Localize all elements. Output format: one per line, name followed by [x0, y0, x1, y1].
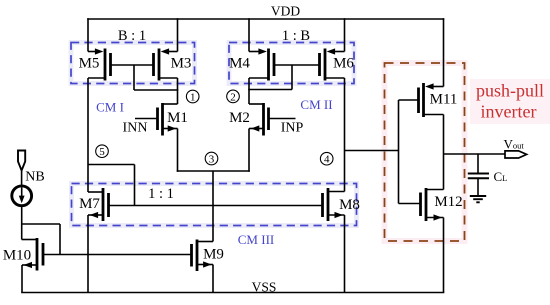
wire: bias node to M10/M9 gate line — [22, 223, 60, 225]
wire: node 4 to push-pull gates — [345, 150, 399, 152]
svg-text:M1: M1 — [167, 110, 188, 126]
svg-text:push-pull: push-pull — [476, 81, 544, 101]
svg-text:M10: M10 — [3, 248, 31, 264]
wire: VDD to M3 source — [177, 18, 179, 51]
svg-text:2: 2 — [230, 91, 236, 103]
wire: M11 drain to output node to M12 drain — [443, 115, 445, 190]
wire: M9 source to VSS — [212, 265, 214, 293]
svg-text:4: 4 — [324, 154, 330, 166]
wire: gate tie down (diode connection M4) — [291, 65, 293, 90]
svg-text:5: 5 — [99, 146, 105, 158]
output terminal Vout — [505, 151, 527, 158]
wire: M10 source to VSS — [21, 265, 23, 293]
wire: M5 drain down to node 5 and M7 drain — [87, 78, 89, 192]
svg-text:1 : B: 1 : B — [282, 28, 310, 44]
wire: M6 drain to node 4 and M8 drain — [344, 78, 346, 192]
svg-text:M2: M2 — [229, 110, 250, 126]
transistor M11 — [399, 83, 444, 117]
current mirror CM III dashed box — [72, 184, 357, 226]
transistor M2 — [249, 103, 296, 136]
wire: current source to M10 drain node — [21, 205, 23, 239]
capacitor CL — [468, 154, 489, 196]
wire: node 5 to M7/M8 gate line — [88, 164, 135, 166]
current mirror CM II dashed box — [229, 43, 354, 84]
svg-text:1: 1 — [190, 91, 196, 103]
wire: gate tie down (diode connection M3) — [133, 65, 135, 90]
svg-text:CM I: CM I — [96, 100, 124, 115]
svg-text:inverter: inverter — [481, 102, 537, 122]
transistor M10 — [22, 238, 43, 271]
input terminal NB — [18, 151, 25, 171]
current source IB — [12, 186, 32, 206]
wire: M8 source to VSS — [344, 215, 346, 293]
wire: node 3 down to M9 drain — [212, 171, 214, 242]
svg-text:M7: M7 — [79, 196, 100, 212]
transistor M3 — [154, 48, 178, 80]
transistor M9 — [192, 240, 214, 272]
svg-text:3: 3 — [209, 153, 215, 165]
transistor M7 — [88, 188, 109, 221]
svg-text:VSS: VSS — [252, 280, 277, 295]
node 4 — [320, 152, 333, 165]
wire: M4 gate to M6 gate — [274, 64, 320, 66]
wire: M1 source down to node 3 — [177, 129, 179, 172]
svg-text:VDD: VDD — [271, 4, 300, 19]
wire: M11/M12 gate tie — [398, 100, 400, 204]
wire: M7 gate to M8 gate — [109, 205, 323, 207]
wire: M4 drain to node 2 / M2 drain — [248, 78, 250, 104]
node 5 — [96, 145, 109, 158]
transistor M4 — [249, 48, 274, 80]
svg-text:1 : 1: 1 : 1 — [148, 186, 174, 202]
transistor M8 — [323, 188, 345, 221]
transistor M1 — [135, 103, 178, 136]
svg-text:B : 1: B : 1 — [118, 28, 146, 44]
wire: node 3 horizontal (M1/M2 sources) — [177, 170, 250, 172]
node 3 — [205, 152, 218, 165]
svg-text:M5: M5 — [79, 56, 100, 72]
wire: M2 source down to node 3 — [248, 129, 250, 172]
wire: VDD to M4 source — [248, 18, 250, 51]
svg-text:CM III: CM III — [238, 232, 274, 247]
wire: VDD to M5 source — [87, 18, 89, 51]
svg-text:M9: M9 — [203, 247, 224, 263]
svg-text:INP: INP — [281, 121, 304, 136]
transistor M6 — [320, 48, 345, 80]
wire: output node to Vout — [444, 153, 506, 155]
current mirror CM I dashed box — [71, 43, 195, 84]
svg-text:NB: NB — [25, 170, 44, 185]
transistor M12 — [399, 188, 444, 221]
svg-text:M4: M4 — [229, 56, 250, 72]
wire: NB terminal to current source — [21, 171, 23, 187]
svg-text:M11: M11 — [430, 92, 458, 108]
svg-text:CM II: CM II — [300, 97, 332, 112]
svg-text:M6: M6 — [333, 56, 354, 72]
transistor M5 — [88, 48, 111, 80]
ground — [470, 196, 486, 202]
svg-text:INN: INN — [123, 121, 148, 136]
VSS power rail — [21, 292, 444, 294]
push-pull inverter dashed box — [385, 63, 465, 241]
svg-text:M12: M12 — [434, 194, 462, 210]
wire: M7 source down to VSS — [87, 215, 89, 293]
wire: M3 drain to node 1 / M1 drain — [177, 78, 179, 104]
wire: VDD to M6 source — [344, 18, 346, 51]
VDD power rail — [87, 18, 444, 20]
node 2 — [227, 90, 240, 103]
wire: M10 gate to M9 gate — [43, 254, 192, 256]
wire: M12 source to VSS — [443, 218, 445, 293]
node 1 — [186, 90, 199, 103]
wire: M5 gate to M3 gate — [111, 64, 154, 66]
svg-text:M3: M3 — [171, 56, 192, 72]
halo decorations (jpeg-like tint) — [71, 43, 195, 84]
wire: VDD to M11 source — [443, 18, 445, 86]
svg-text:M8: M8 — [339, 197, 360, 213]
